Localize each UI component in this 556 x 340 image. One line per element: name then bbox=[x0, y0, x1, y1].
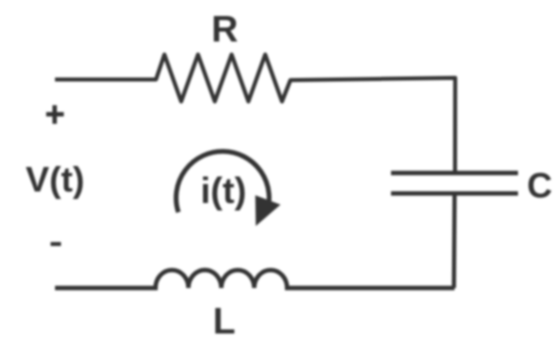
svg-text:C: C bbox=[527, 166, 552, 205]
svg-text:i(t): i(t) bbox=[201, 170, 247, 211]
svg-text:R: R bbox=[211, 9, 238, 50]
svg-text:V(t): V(t) bbox=[26, 159, 85, 199]
svg-text:L: L bbox=[213, 301, 236, 340]
